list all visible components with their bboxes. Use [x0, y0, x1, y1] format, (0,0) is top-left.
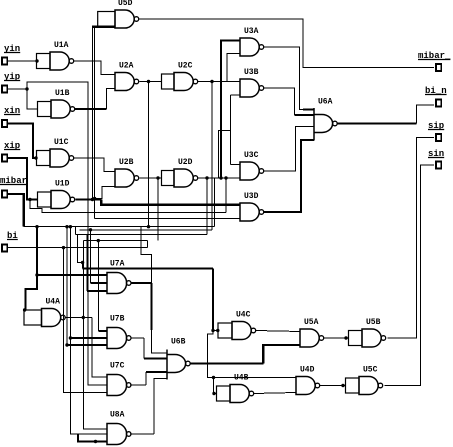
- wire U5D input stub: [92, 26, 115, 28]
- pad yin: [2, 58, 7, 65]
- pad mibar_: [436, 64, 441, 71]
- wire U3C out to U6A in3: [264, 127, 314, 172]
- node U4C pin: [216, 329, 219, 332]
- node yip junction: [25, 87, 28, 90]
- wire mibar to U8A in2: [70, 338, 107, 434]
- wire mibar to U4A: [26, 275, 38, 310]
- pad bi: [2, 245, 7, 252]
- node U4A input pin: [23, 308, 26, 311]
- nand gate U2C: [174, 73, 193, 91]
- svg-text:U7A: U7A: [110, 260, 125, 269]
- node U2D junction3: [205, 176, 208, 179]
- wire U4B out to U4D in2: [254, 393, 296, 394]
- wire to bi_n pad: [417, 105, 435, 124]
- nand gate U2B: [115, 169, 134, 187]
- wire U2A out to U2C: [140, 81, 162, 83]
- wire U2B in2 staircase: [95, 187, 115, 199]
- wire x67 to U7B in3: [66, 227, 68, 345]
- wire U4B drop: [214, 378, 217, 394]
- svg-text:U1B: U1B: [55, 89, 70, 98]
- pad yip: [2, 86, 7, 93]
- wire xip to U1D: [7, 158, 37, 200]
- wire mibar to corner: [7, 194, 24, 227]
- wire x87 to U7A in3: [86, 235, 88, 292]
- wire bi pad line: [7, 247, 148, 249]
- node mibar-U7B junction: [69, 336, 72, 339]
- nand gate U5D: [115, 10, 134, 28]
- wire U2D jog up: [219, 131, 231, 179]
- wire U2D out: [198, 177, 240, 179]
- wire U1C out to U2B in1: [74, 158, 115, 172]
- svg-text:U4D: U4D: [300, 366, 315, 375]
- wire U2C down x212: [211, 82, 213, 230]
- svg-text:U3B: U3B: [244, 68, 259, 77]
- wire U2B down x158: [157, 178, 159, 241]
- node U7A in2 junction: [89, 228, 92, 231]
- node mibar-U7A junction: [35, 273, 38, 276]
- node x67 top junction: [65, 225, 68, 228]
- node mibar x70 junction: [69, 225, 72, 228]
- wire U7B to U6B in2 drop: [143, 338, 145, 359]
- wire U4C in: [213, 330, 218, 332]
- wire U4 net bold: [83, 267, 213, 269]
- wire U8A to U6B in4: [154, 379, 167, 435]
- wire mibar down x37: [36, 227, 38, 275]
- pad bi_n: [436, 100, 441, 107]
- node U7B in3 junction: [65, 343, 68, 346]
- wire bi riser up: [147, 241, 149, 248]
- wire U3D out to U6A in4: [264, 140, 314, 212]
- wire U3C in1 wire: [231, 164, 241, 166]
- pad xip: [2, 155, 7, 162]
- node U2C out junction: [210, 80, 213, 83]
- nand gate U4C: [232, 322, 251, 340]
- wire U7C out: [130, 384, 146, 386]
- wire sip net: [388, 138, 434, 339]
- wire U1B out: [75, 108, 107, 110]
- nand gate U6A: [313, 108, 315, 141]
- node U2D out junction2: [224, 176, 227, 179]
- wire U7B in3 stub: [67, 344, 107, 346]
- wire U4 jog down: [208, 331, 297, 378]
- wire U7A to U6B in1: [152, 330, 168, 353]
- node U1D out junction: [91, 198, 94, 201]
- wire U6A out: [337, 122, 416, 124]
- node U4C in junction: [211, 329, 214, 332]
- wire yip to junction: [7, 88, 27, 90]
- nand gate U1B: [51, 100, 70, 118]
- node mibar junction: [35, 225, 38, 228]
- nand gate U5C: [359, 377, 378, 395]
- node U2D junction1: [219, 176, 222, 179]
- svg-text:U8A: U8A: [110, 411, 125, 420]
- node U7B in1 junction: [97, 239, 100, 242]
- wire U7B in2 stub: [70, 337, 107, 339]
- node U4D in junction: [212, 376, 215, 379]
- node x82 dot: [81, 261, 84, 264]
- wire U7A to U6B in1 drop: [150, 283, 152, 330]
- svg-text:U3C: U3C: [244, 151, 259, 160]
- node U4A out junction: [82, 316, 85, 319]
- wire U3A out to U6A in1: [264, 47, 314, 110]
- wire U7A out: [131, 282, 152, 284]
- wire U2A out down: [148, 82, 150, 227]
- nand gate U1D: [51, 191, 70, 209]
- wire U4C out to U5A in1: [256, 331, 300, 332]
- wire U3B out to U6A in2: [264, 88, 295, 115]
- wire U6B in2 stub: [144, 357, 167, 359]
- wire x98 to U7B in1: [97, 241, 99, 331]
- pad mibar: [2, 191, 7, 198]
- pad sip: [436, 134, 441, 141]
- wire U7A in3 stub: [87, 290, 107, 292]
- svg-text:U4A: U4A: [46, 298, 61, 307]
- wire x226 riser: [225, 178, 227, 213]
- wire U8A in3 bold: [78, 434, 107, 442]
- svg-text:U2B: U2B: [119, 158, 134, 167]
- wire bi down x83 to U8A in1: [83, 241, 107, 429]
- svg-text:U2C: U2C: [178, 62, 193, 71]
- nand gate U1A: [50, 52, 69, 70]
- nand gate U2D: [174, 169, 193, 187]
- wire U8A out: [130, 433, 154, 435]
- svg-text:U3A: U3A: [244, 27, 259, 36]
- wire bus lineB y229.8: [79, 229, 212, 231]
- nand gate U5B: [362, 329, 381, 347]
- wire yip up across down to U7C in2: [27, 82, 107, 385]
- node U4B pin: [212, 392, 215, 395]
- wire yip down to U1B: [27, 89, 38, 109]
- wire bus lineA y226.7: [24, 226, 215, 228]
- wire U7B in1 stub: [98, 330, 107, 332]
- wire bus lineC y234.5: [75, 234, 207, 236]
- pad sin: [436, 162, 441, 169]
- svg-text:U7B: U7B: [110, 315, 125, 324]
- wire U5A out to U5B: [324, 337, 349, 339]
- wire U1D up to U5D: [91, 27, 93, 200]
- wire U1D to U3D in1: [101, 200, 240, 205]
- wire U4A out: [65, 317, 92, 319]
- wire U5D out to mibar_ pad: [139, 19, 434, 68]
- nand gate U8A: [107, 424, 127, 445]
- wire U7A in2 stub: [91, 282, 108, 284]
- wire U4A to U7C in1: [92, 318, 107, 378]
- nand gate U7A: [107, 273, 127, 294]
- svg-text:U1D: U1D: [55, 180, 70, 189]
- wire U7B out: [131, 337, 144, 339]
- nand gate U3D: [240, 203, 259, 221]
- nand gate U5A: [300, 329, 319, 347]
- wire U2B out to U2D: [140, 177, 162, 179]
- wire sin net: [385, 165, 434, 386]
- wire U6A in1 stub: [303, 108, 314, 110]
- wire x90 to U7A in2: [90, 230, 92, 283]
- nand gate U4A: [42, 309, 61, 327]
- svg-text:U5D: U5D: [118, 0, 133, 8]
- node bi junction: [62, 246, 65, 249]
- svg-text:U1C: U1C: [54, 138, 69, 147]
- wire U7C to U6B in3 rise: [145, 372, 147, 385]
- svg-text:U6B: U6B: [171, 338, 186, 347]
- svg-text:U5C: U5C: [363, 366, 378, 375]
- wire U2C out to U3B in1: [198, 81, 240, 83]
- node U2B in2 junction: [93, 197, 96, 200]
- node xin-U1C pin: [34, 156, 37, 159]
- wire mibar down x70: [69, 227, 71, 338]
- wire U6A in2 stub: [295, 114, 315, 116]
- wire U3B in2 wire: [231, 94, 241, 96]
- node junction x95 U8A: [94, 440, 97, 443]
- svg-text:U2A: U2A: [119, 62, 134, 71]
- node yin-U1A junction: [35, 59, 38, 62]
- nand gate U3A: [240, 38, 259, 56]
- wire U1D out: [76, 198, 102, 200]
- node U2A down junction: [147, 225, 150, 228]
- wire yin to U1A: [7, 60, 36, 62]
- wire x214 riser down: [214, 178, 216, 227]
- wire bi to U7C in3: [64, 248, 108, 393]
- nand gate U2A: [115, 73, 134, 91]
- nand gate U7B: [107, 328, 127, 349]
- svg-text:U7C: U7C: [110, 362, 125, 371]
- wire U6B out: [190, 362, 263, 364]
- wire U6B to U5A in2: [263, 345, 300, 364]
- wire U1A out to U2A in1: [74, 61, 115, 75]
- wire U3A in1 bold: [221, 41, 240, 179]
- svg-text:U3D: U3D: [244, 192, 259, 201]
- wire x230 vertical: [230, 95, 232, 165]
- nand gate U6B: [166, 350, 168, 380]
- svg-text:U5A: U5A: [304, 318, 319, 327]
- node U2B out junction: [156, 176, 159, 179]
- node U2A out junction: [147, 80, 150, 83]
- wire U1B to U2A in2: [107, 89, 115, 110]
- nand gate U4D: [296, 377, 315, 395]
- nand gate U7C: [107, 375, 127, 396]
- wire bus lineG y218.5 to U3D in2: [95, 218, 240, 220]
- svg-text:U6A: U6A: [318, 98, 333, 107]
- node U5B pin: [344, 336, 347, 339]
- wire U4D out to U5C: [320, 385, 346, 387]
- wire U1D thin branch down: [94, 27, 96, 219]
- wire xip staircase to bus: [30, 200, 226, 213]
- svg-text:U4C: U4C: [236, 311, 251, 320]
- svg-text:U2D: U2D: [178, 158, 193, 167]
- node U5C pin: [341, 384, 344, 387]
- nand gate U3C: [240, 162, 259, 180]
- wire x207 riser: [206, 178, 208, 235]
- wire U7A in1: [37, 274, 107, 276]
- nand gate U3B: [240, 79, 259, 97]
- wire U2C up to U3A in2: [227, 54, 240, 82]
- nand gate U1C: [50, 149, 69, 167]
- pad xin: [2, 120, 7, 127]
- wire x77 riser to U4 net: [77, 235, 82, 269]
- svg-text:U5B: U5B: [366, 318, 381, 327]
- node xip junction: [28, 198, 31, 201]
- wire U4 net down: [212, 269, 214, 331]
- wire xin to U1C: [7, 124, 36, 159]
- wire bus lineD y240.6: [83, 240, 147, 242]
- wire U6B in3 stub: [146, 371, 167, 373]
- svg-text:U1A: U1A: [54, 41, 69, 50]
- nand gate U4B: [230, 385, 249, 403]
- wire bus y254 stub: [141, 227, 152, 283]
- wire lineC left riser: [74, 227, 76, 235]
